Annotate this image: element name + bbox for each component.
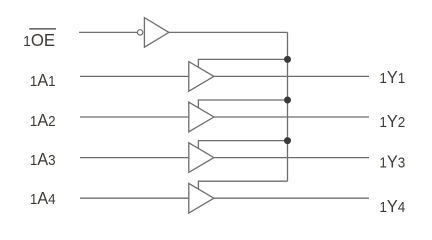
wire inverter output xyxy=(169,31,288,33)
inverter bubble xyxy=(137,30,142,35)
svg-text:1Y3: 1Y3 xyxy=(379,151,405,171)
net label 1Y4 xyxy=(379,196,405,216)
buffer 1 xyxy=(189,62,214,92)
inverter U1 xyxy=(144,18,169,48)
buffer 2 xyxy=(189,102,214,132)
wire 1Y4 output xyxy=(214,197,369,199)
wire 1A4 input xyxy=(80,197,189,199)
junction dot row2 xyxy=(284,97,291,104)
wire 1Y1 output xyxy=(214,75,369,77)
wire 1Y3 output xyxy=(214,157,369,159)
wire 1A1 input xyxy=(80,75,189,77)
wire enable bus vertical xyxy=(287,32,289,181)
svg-text:1OE: 1OE xyxy=(23,30,55,50)
junction dot row3 xyxy=(284,137,291,144)
wire 1A3 input xyxy=(80,157,189,159)
wire enable row1 xyxy=(198,59,287,67)
wire 1A2 input xyxy=(80,116,189,118)
net label 1Y1 xyxy=(379,67,405,87)
svg-text:1Y4: 1Y4 xyxy=(379,196,405,216)
net label 1A2 xyxy=(30,110,56,130)
buffer 3 xyxy=(189,143,214,173)
net label 1A4 xyxy=(30,188,56,208)
junction dot row1 xyxy=(284,56,291,63)
svg-text:1A2: 1A2 xyxy=(30,110,56,130)
svg-text:1A3: 1A3 xyxy=(30,149,56,169)
wire 1Y2 output xyxy=(214,116,369,118)
net label 1A1 xyxy=(30,70,56,90)
net label 1A3 xyxy=(30,149,56,169)
wire enable row2 xyxy=(198,100,287,108)
wire 1OE input xyxy=(79,31,137,33)
net label 1Y2 xyxy=(379,111,405,131)
wire enable row3 xyxy=(198,141,287,149)
svg-text:1A4: 1A4 xyxy=(30,188,56,208)
wire enable row4 xyxy=(198,181,287,189)
svg-text:1A1: 1A1 xyxy=(30,70,56,90)
svg-text:1Y1: 1Y1 xyxy=(379,67,405,87)
svg-text:1Y2: 1Y2 xyxy=(379,111,405,131)
buffer 4 xyxy=(189,183,214,213)
net label 1Y3 xyxy=(379,151,405,171)
net label 1OE xyxy=(23,29,56,50)
